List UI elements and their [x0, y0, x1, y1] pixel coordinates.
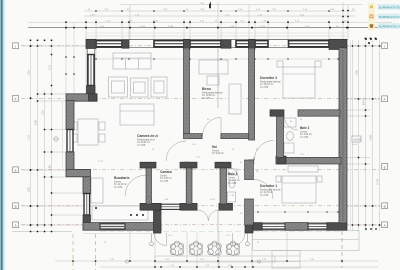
- bath 1 door: [227, 167, 239, 179]
- section circle marker left: [54, 137, 261, 263]
- bottom dots: [72, 260, 74, 262]
- bay window west: [67, 130, 73, 153]
- column: [122, 40, 129, 48]
- axis marker E right: [382, 222, 388, 228]
- right step wall of entrance recess: [245, 203, 253, 233]
- window S3: [308, 224, 327, 229]
- living room sofa group: [113, 53, 151, 69]
- corner column NE: [329, 39, 347, 49]
- right step door: [233, 233, 246, 246]
- svg-text:I: I: [384, 45, 385, 49]
- svg-text:6.45: 6.45: [363, 100, 366, 105]
- bottom extension verticals: [129, 232, 131, 262]
- svg-text:4.80: 4.80: [370, 135, 373, 140]
- bay left wall upper segment: [66, 101, 74, 130]
- bath2 left wall: [277, 110, 284, 157]
- svg-text:F: F: [384, 98, 386, 102]
- label Camera de zi: [137, 134, 158, 147]
- bedroom1 left wall lower: [245, 199, 254, 225]
- property dashed verticals bottom: [73, 231, 342, 270]
- svg-text:S= 9.80 m²: S= 9.80 m²: [212, 152, 224, 155]
- bath2 north wall right part: [298, 110, 340, 116]
- svg-text:2.725: 2.725: [153, 20, 159, 22]
- top extension verticals: [85, 20, 87, 41]
- office south wall right part: [221, 134, 254, 139]
- left step wall of entrance recess: [154, 203, 162, 233]
- step door pivot symbols: [150, 234, 250, 246]
- axis marker B left: [13, 95, 19, 101]
- bedroom 1 bed: [282, 176, 316, 203]
- bath1 left wall cap: [215, 162, 231, 168]
- bedroom1 left wall upper: [245, 160, 254, 180]
- svg-text:h= 2.85: h= 2.85: [202, 97, 211, 100]
- level marker right side: [352, 136, 361, 142]
- pantry left wall stem: [146, 168, 152, 204]
- bay top wall: [66, 94, 97, 101]
- window N4: [236, 41, 249, 47]
- svg-text:Bucatarie: Bucatarie: [114, 176, 130, 180]
- bath 1 fixtures: [228, 169, 237, 175]
- axis marker C right: [382, 164, 388, 170]
- legend row 2: [378, 14, 400, 20]
- misc tiny annotations: [98, 119, 358, 244]
- svg-text:h= 2.85: h= 2.85: [114, 186, 123, 189]
- bath 2 fixtures: [284, 118, 296, 127]
- bottom-left zone dots: [130, 214, 132, 216]
- window W-up: [88, 55, 94, 86]
- recess window: [161, 204, 180, 209]
- svg-text:Baie 2: Baie 2: [300, 126, 310, 130]
- top dimension flag: [209, 2, 211, 9]
- svg-text:±0.00: ±0.00: [352, 144, 358, 146]
- interior wall: living/office divider: [184, 48, 190, 134]
- pantry left wall cap: [140, 162, 156, 168]
- svg-text:1.275: 1.275: [98, 161, 104, 163]
- bath1 left wall: [220, 168, 227, 204]
- svg-text:h= 2.85: h= 2.85: [260, 194, 269, 197]
- window N6: [289, 41, 330, 47]
- svg-text:h= 2.85: h= 2.85: [260, 86, 269, 89]
- corner column NW: [86, 39, 96, 48]
- wall tee at living/office divider: [184, 39, 191, 49]
- axis marker A right: [382, 43, 388, 49]
- legend row 1: [378, 4, 400, 10]
- svg-text:Baie 1: Baie 1: [228, 172, 238, 176]
- svg-text:5.425: 5.425: [168, 26, 174, 28]
- label Camara: [160, 170, 172, 183]
- kitchen counters: [91, 178, 103, 203]
- svg-text:SUPRAFAȚA CONSTR.: SUPRAFAȚA CONSTR.: [379, 15, 400, 19]
- axis D: [21, 205, 380, 207]
- svg-text:2.075: 2.075: [260, 26, 266, 28]
- section cut line: [217, 48, 219, 232]
- axis B: [21, 97, 380, 99]
- axis marker B right: [382, 96, 388, 102]
- svg-text:SUPRAFAȚA TEREN: SUPRAFAȚA TEREN: [379, 5, 400, 9]
- svg-text:+0.00: +0.00: [353, 138, 361, 142]
- bushes in front of entrance: [170, 241, 240, 255]
- bath2 north wall left block: [270, 110, 284, 116]
- svg-text:h= 2.85: h= 2.85: [300, 136, 309, 139]
- svg-text:B: B: [15, 205, 17, 209]
- window N1: [96, 41, 122, 47]
- svg-text:5.05: 5.05: [35, 120, 38, 125]
- window N5: [255, 41, 268, 47]
- svg-text:F: F: [15, 97, 17, 101]
- svg-text:1.475: 1.475: [90, 15, 96, 17]
- svg-text:Hol: Hol: [212, 145, 217, 149]
- recessed entrance wall blocks: [140, 203, 161, 210]
- svg-text:I: I: [15, 45, 16, 49]
- label Dormitor 1: [260, 184, 281, 197]
- office door: [203, 118, 222, 137]
- svg-text:h= 2.05: h= 2.05: [160, 180, 169, 183]
- svg-text:h= 2.85: h= 2.85: [137, 144, 146, 147]
- svg-text:1.60: 1.60: [49, 165, 52, 170]
- axis A: [21, 45, 380, 47]
- entrance double door: [198, 210, 209, 221]
- axis E: [21, 224, 380, 226]
- bedroom 2 door: [255, 141, 274, 160]
- pantry right wall stem: [186, 168, 192, 204]
- svg-text:5.30: 5.30: [356, 70, 359, 75]
- window W-low: [84, 194, 90, 216]
- label Hol: [212, 145, 224, 155]
- bottom-right exterior wall: [253, 223, 347, 231]
- kitchen door: [125, 175, 146, 196]
- svg-text:SUPRAFAȚA UTILĂ: SUPRAFAȚA UTILĂ: [379, 25, 400, 29]
- office south wall left stub: [184, 134, 203, 139]
- wall tee at office/bedroom2 divider: [249, 39, 255, 49]
- axis marker E left: [13, 222, 19, 228]
- axis marker D right: [382, 203, 388, 209]
- roof / sill outer lines: [86, 35, 347, 37]
- left lower exterior wall: [83, 177, 91, 194]
- svg-text:A: A: [384, 224, 386, 228]
- label Bucatarie: [114, 176, 130, 189]
- svg-text:4.125: 4.125: [140, 26, 146, 28]
- axis marker A left: [13, 43, 19, 49]
- left chain dots: [30, 45, 32, 47]
- bottom-left exterior wall: [83, 223, 161, 231]
- left step door: [154, 233, 167, 246]
- svg-text:Birou: Birou: [202, 87, 211, 91]
- corner column SE: [327, 223, 347, 231]
- top-right scatter dots near legend: [365, 38, 367, 40]
- svg-text:3.60: 3.60: [28, 187, 31, 192]
- svg-text:Dormitor 1: Dormitor 1: [260, 184, 277, 188]
- office desk and wardrobe: [199, 60, 228, 74]
- svg-text:17.45: 17.45: [377, 178, 380, 185]
- label Birou: [202, 87, 223, 100]
- interior wall: office/bedroom2 divider: [249, 48, 255, 140]
- window N3: [190, 41, 221, 47]
- axis C: [21, 169, 380, 171]
- right chain dots: [352, 45, 354, 47]
- svg-text:2.25: 2.25: [42, 110, 45, 115]
- svg-text:1.075: 1.075: [210, 199, 216, 201]
- door jamb marks: [146, 110, 298, 211]
- right dimension chains: [352, 40, 354, 231]
- bedroom1 north wall: [276, 157, 341, 164]
- label Dormitor 2: [260, 76, 281, 89]
- bedroom 1 door: [254, 180, 274, 200]
- svg-text:2.175: 2.175: [105, 20, 111, 22]
- axis marker D left: [13, 203, 19, 209]
- left dimension chains: [30, 43, 32, 228]
- bedroom 2 bed: [283, 67, 315, 98]
- window S2: [262, 224, 285, 229]
- label Baie 1: [228, 172, 240, 185]
- interior dimension rows: [96, 59, 338, 212]
- svg-text:A: A: [15, 224, 17, 228]
- svg-text:E: E: [15, 169, 17, 173]
- column: [221, 40, 231, 48]
- pantry right wall cap: [180, 162, 197, 168]
- svg-text:h= 2.85: h= 2.85: [228, 182, 237, 185]
- dining table in bay: [78, 119, 98, 145]
- svg-text:Camara: Camara: [160, 170, 172, 174]
- living room door: [166, 141, 186, 161]
- bay left wall lower segment: [66, 152, 74, 171]
- legend row 3: [378, 23, 400, 29]
- label Baie 2: [300, 126, 312, 139]
- svg-text:3.10: 3.10: [49, 65, 52, 70]
- top dimension lines: [120, 4, 362, 6]
- right exterior wall: [339, 48, 347, 223]
- window N2: [154, 41, 184, 47]
- bottom dimension lines: [55, 260, 378, 262]
- window S1 (in bottom-left wall): [100, 224, 125, 229]
- svg-text:5.25: 5.25: [28, 70, 31, 75]
- svg-text:E: E: [384, 165, 386, 169]
- teal binding bar left edge: [0, 0, 6, 270]
- axis marker C left: [13, 167, 19, 173]
- svg-text:7.15: 7.15: [28, 135, 31, 140]
- svg-text:B: B: [384, 205, 386, 209]
- coffee table: [120, 104, 154, 125]
- bath 2 door: [285, 117, 299, 131]
- bay bottom wall: [66, 169, 91, 176]
- svg-text:Camera de zi: Camera de zi: [137, 134, 158, 138]
- top exterior wall band: [86, 39, 347, 49]
- right extension horizontals: [347, 45, 381, 47]
- left extension horizontals: [22, 45, 86, 47]
- left upper exterior wall: [87, 48, 96, 94]
- svg-text:Dormitor 2: Dormitor 2: [260, 76, 277, 80]
